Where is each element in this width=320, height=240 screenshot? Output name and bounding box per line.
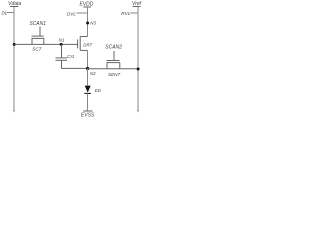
wire RVL reference line bbox=[137, 7, 139, 112]
svg-text:DVL: DVL bbox=[67, 11, 76, 16]
node RVL arrowhead bbox=[137, 110, 139, 112]
svg-text:N1: N1 bbox=[59, 38, 65, 43]
wire DRT source to N2 bbox=[87, 50, 89, 68]
node DL junction bbox=[13, 43, 16, 46]
node N3 junction bbox=[86, 22, 89, 25]
wire EVDD rail bbox=[87, 7, 89, 37]
svg-text:N3: N3 bbox=[90, 21, 96, 26]
wire gate row bbox=[14, 43, 77, 45]
svg-text:RVL: RVL bbox=[121, 11, 130, 16]
node EVSS terminal bbox=[81, 111, 95, 118]
svg-text:SCT: SCT bbox=[32, 47, 42, 52]
wire Cst to N2 bbox=[62, 67, 88, 69]
wire N2 to RVL bbox=[88, 68, 139, 70]
diode ED (OLED) bbox=[84, 86, 101, 94]
node Vref terminal bbox=[132, 1, 142, 7]
node DL arrowhead bbox=[13, 110, 15, 112]
transistor SCT bbox=[32, 27, 45, 52]
node RVL label bbox=[121, 11, 137, 16]
svg-text:Cst: Cst bbox=[67, 54, 75, 59]
node N1 junction bbox=[60, 43, 63, 46]
svg-text:SCAN2: SCAN2 bbox=[105, 44, 122, 50]
svg-text:DRT: DRT bbox=[83, 42, 92, 47]
wire DL data line bbox=[13, 7, 15, 112]
transistor SENT bbox=[107, 51, 122, 77]
node EVDD terminal bbox=[79, 1, 93, 7]
transistor DRT bbox=[78, 37, 93, 51]
node RVL junction bbox=[137, 68, 140, 71]
svg-text:N2: N2 bbox=[90, 71, 96, 76]
wire OLED anode/cathode bbox=[87, 69, 89, 86]
svg-text:EVSS: EVSS bbox=[81, 112, 95, 118]
node DVL label bbox=[67, 11, 87, 16]
node DL label bbox=[2, 10, 14, 15]
Vdata terminal bbox=[8, 1, 21, 7]
node N2 junction bbox=[86, 67, 89, 70]
capacitor Cst bbox=[56, 44, 75, 68]
svg-text:SCAN1: SCAN1 bbox=[29, 21, 46, 27]
svg-text:SENT: SENT bbox=[108, 72, 121, 77]
svg-text:ED: ED bbox=[95, 88, 102, 93]
